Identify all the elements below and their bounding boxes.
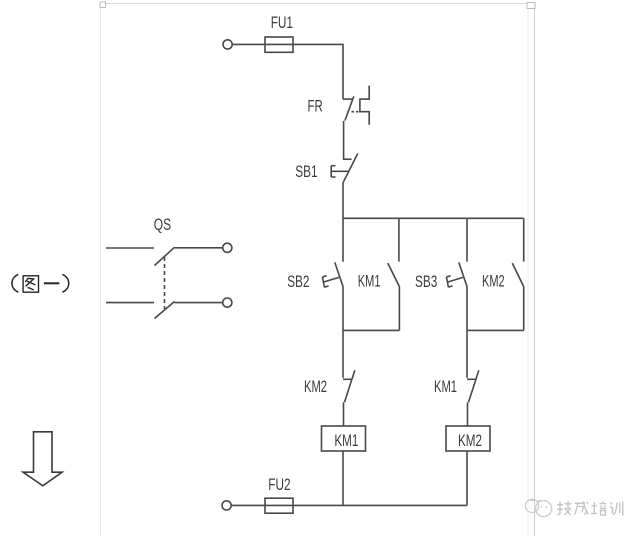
watermark text 技成培训 drawn as strokes xyxy=(557,501,623,515)
fuse FU2 xyxy=(265,498,293,513)
wire KM1 interlock to coil KM2 xyxy=(467,402,469,426)
FR linkage dashed xyxy=(352,111,360,113)
svg-text:KM2: KM2 xyxy=(482,272,505,291)
contact KM1 (NO latch) xyxy=(388,263,400,287)
svg-text:SB2: SB2 xyxy=(287,272,309,291)
caption (图一) drawn as strokes xyxy=(12,274,69,292)
FR thermal flag xyxy=(360,86,369,125)
fuse FU1 xyxy=(265,37,293,52)
contact KM2 (NO latch) xyxy=(512,263,523,287)
svg-text:KM1: KM1 xyxy=(334,431,358,450)
wire KM2 interlock to coil KM1 xyxy=(343,402,345,426)
svg-text:SB1: SB1 xyxy=(295,162,317,181)
bottom return wire through FU2 xyxy=(231,504,467,506)
coil KM2 xyxy=(446,426,490,451)
bus node line xyxy=(343,217,524,219)
switch QS pole 1 xyxy=(106,247,223,265)
wire KM2 contact down xyxy=(523,287,525,331)
wire bus down to KM1 contact xyxy=(398,218,400,261)
down arrow xyxy=(23,432,62,486)
svg-text:FR: FR xyxy=(308,96,323,115)
terminal circle top-left xyxy=(223,40,232,49)
coil KM1 xyxy=(322,426,366,451)
wire left branch down to KM2 interlock xyxy=(342,330,344,378)
watermark logo circles xyxy=(525,499,551,516)
wire coil KM1 to bottom wire xyxy=(342,451,344,505)
svg-text:KM2: KM2 xyxy=(458,431,482,450)
terminal circle bottom-left xyxy=(222,501,231,510)
svg-text:FU1: FU1 xyxy=(271,13,293,32)
wire SB3 down xyxy=(466,287,468,331)
svg-text:KM1: KM1 xyxy=(434,377,457,396)
terminal circle QS pole 1 xyxy=(223,243,232,252)
thermal relay contact FR xyxy=(343,96,354,120)
terminal circle QS pole 2 xyxy=(223,298,232,307)
wire SB1 to bus xyxy=(342,182,344,219)
svg-text:QS: QS xyxy=(154,215,171,234)
wire KM1 contact down xyxy=(398,287,400,331)
svg-text:KM2: KM2 xyxy=(304,377,327,396)
contact KM2 (NC interlock) xyxy=(343,370,355,402)
wire bus down to SB3 xyxy=(466,218,468,261)
svg-text:KM1: KM1 xyxy=(358,272,381,291)
switch QS pole 2 xyxy=(106,302,223,319)
pushbutton SB2 (NO start) xyxy=(322,262,343,287)
wire bus down to KM2 contact xyxy=(523,218,525,261)
wire right branch down to KM1 interlock xyxy=(466,330,468,378)
svg-text:SB3: SB3 xyxy=(415,272,437,291)
pushbutton SB3 (NO start) xyxy=(446,262,467,287)
wire FR to SB1 xyxy=(343,121,345,159)
junction wire right branch xyxy=(467,329,524,331)
svg-text:FU2: FU2 xyxy=(268,475,290,494)
QS mechanical linkage dashed xyxy=(164,257,166,309)
wire SB2 down xyxy=(342,287,344,331)
pushbutton SB1 (NC stop) xyxy=(331,153,358,181)
wire from top terminal through FU1 to corner and down xyxy=(232,44,343,99)
wire bus down to SB2 xyxy=(342,218,344,261)
junction wire left branch xyxy=(343,329,399,331)
wire coil KM2 to bottom wire xyxy=(466,451,468,505)
contact KM1 (NC interlock) xyxy=(467,370,479,402)
border frame (not labelled content): page edges xyxy=(100,2,535,536)
